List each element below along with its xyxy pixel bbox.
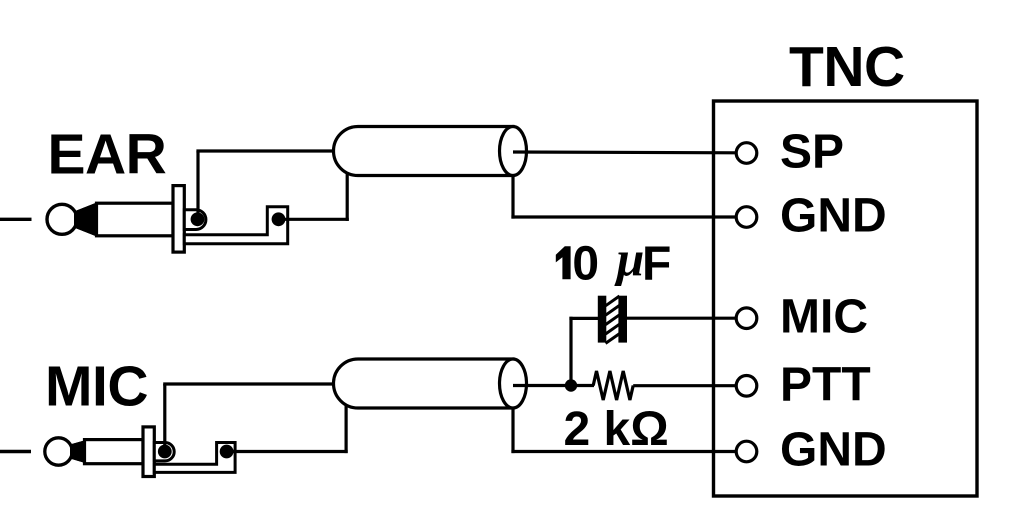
plug J2 (MIC) barrel bbox=[85, 440, 144, 464]
plug J2 (MIC) tip wedge overlay bbox=[70, 440, 86, 463]
node EAR tip solder dot bbox=[191, 212, 205, 226]
cable W2 (microphone) body bbox=[334, 359, 514, 408]
wire resistor right lead to PTT pin bbox=[633, 384, 737, 387]
cable W1 end face bbox=[500, 127, 527, 176]
svg-text:F: F bbox=[642, 238, 671, 291]
wire EAR external stub bbox=[0, 218, 32, 221]
TNC box bbox=[714, 101, 978, 496]
plug J1 (EAR) sleeve lug bbox=[184, 207, 287, 244]
wire capacitor right lead to MIC pin bbox=[627, 317, 737, 320]
wire MIC external stub bbox=[0, 450, 31, 453]
wire MIC sleeve horizontal bbox=[227, 450, 348, 453]
plug J1 (EAR) tip wedge overlay bbox=[74, 202, 98, 237]
plug J1 (EAR) flange bbox=[173, 186, 184, 253]
pin SP circle bbox=[736, 143, 757, 164]
pin MIC circle bbox=[736, 308, 757, 329]
capacitor C1 hatch bbox=[606, 296, 620, 343]
plug J2 (MIC) tip ball bbox=[45, 438, 72, 465]
plug J2 (MIC) sleeve lug bbox=[154, 443, 235, 473]
pin GND2 circle bbox=[736, 441, 757, 462]
svg-text:SP: SP bbox=[780, 126, 844, 179]
plug J1 (EAR) tip ball bbox=[47, 204, 77, 234]
wire EAR sleeve horizontal bbox=[279, 218, 349, 221]
plug J2 (MIC) flange bbox=[143, 427, 154, 477]
plug J1 (EAR) tip wedge bbox=[74, 202, 98, 237]
wire EAR tip horizontal to cable W1 bbox=[196, 149, 336, 152]
wire EAR sleeve vertical to cable W1 shield bbox=[346, 174, 349, 221]
svg-text:EAR: EAR bbox=[48, 123, 167, 187]
capacitor C1 right plate bbox=[618, 296, 627, 343]
value label 10 uF bbox=[556, 237, 599, 290]
pin GND1 circle bbox=[736, 207, 757, 228]
wire W1 shield to GND pin bbox=[511, 215, 737, 218]
wire MIC tip horizontal to cable W2 bbox=[163, 382, 336, 385]
wire W2 shield vertical drop bbox=[511, 407, 514, 454]
svg-text:PTT: PTT bbox=[780, 359, 871, 412]
wire MIC sleeve vertical to cable W2 shield bbox=[345, 406, 348, 453]
svg-text:GND: GND bbox=[780, 424, 887, 477]
plug J2 (MIC) tip wedge bbox=[70, 440, 86, 463]
pin PTT circle bbox=[736, 376, 757, 397]
wire EAR tip vertical bbox=[196, 151, 199, 219]
plug J1 (EAR) barrel bbox=[97, 203, 174, 236]
node MIC sleeve solder dot bbox=[220, 445, 234, 459]
cable W2 end face bbox=[500, 359, 527, 408]
node A junction dot bbox=[565, 379, 577, 391]
capacitor C1 left plate bbox=[598, 296, 607, 343]
wire W1 center conductor to SP pin bbox=[513, 150, 737, 154]
plug J2 (MIC) tip terminal bbox=[154, 443, 174, 461]
wire W2 shield to GND pin bbox=[511, 450, 737, 453]
cable W1 (speaker) body bbox=[334, 127, 514, 176]
wire capacitor left lead bbox=[569, 317, 599, 320]
svg-text:MIC: MIC bbox=[780, 291, 868, 344]
wire MIC tip vertical bbox=[163, 384, 166, 452]
node EAR sleeve solder dot bbox=[272, 212, 286, 226]
svg-text:2 kΩ: 2 kΩ bbox=[564, 403, 669, 456]
svg-text:μ: μ bbox=[614, 231, 645, 287]
svg-text:0: 0 bbox=[572, 237, 599, 290]
resistor R1 zigzag bbox=[593, 371, 633, 400]
svg-text:GND: GND bbox=[780, 190, 887, 243]
wire node A to capacitor vertical bbox=[569, 317, 572, 386]
node MIC tip solder dot bbox=[158, 445, 172, 459]
plug J1 (EAR) tip terminal bbox=[184, 210, 206, 230]
svg-text:TNC: TNC bbox=[789, 35, 905, 99]
wire W1 shield vertical drop bbox=[511, 174, 514, 219]
svg-text:MIC: MIC bbox=[45, 355, 148, 419]
wire W2 center conductor to node A bbox=[513, 384, 594, 387]
